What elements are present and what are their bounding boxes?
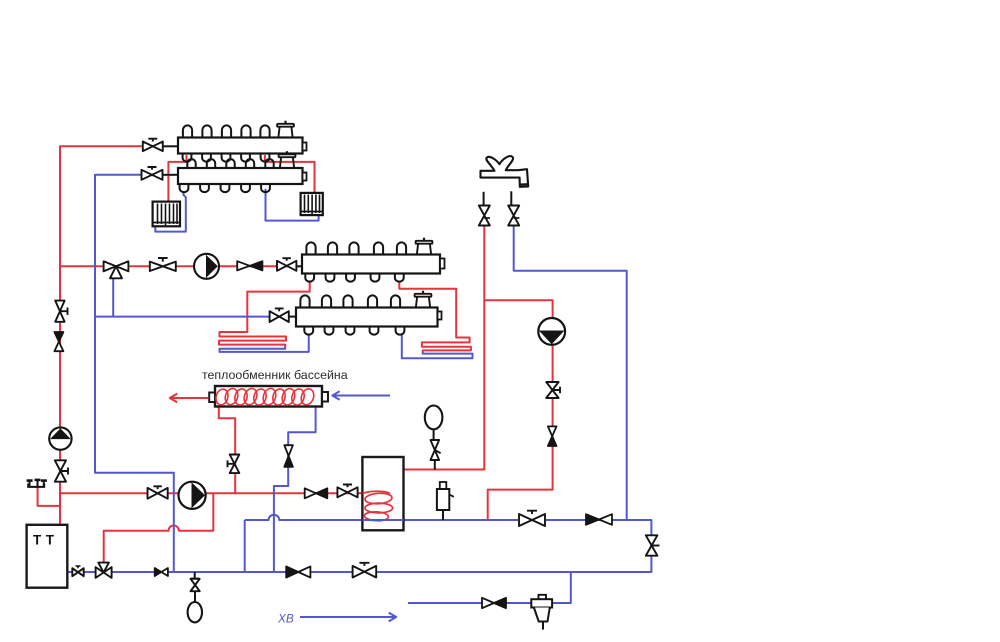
svg-text:ХВ: ХВ xyxy=(277,612,294,626)
svg-text:теплообменник бассейна: теплообменник бассейна xyxy=(202,368,348,382)
svg-text:ТТ: ТТ xyxy=(33,533,59,548)
